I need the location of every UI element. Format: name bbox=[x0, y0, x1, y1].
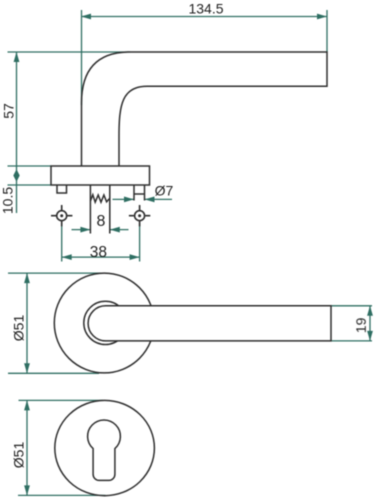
svg-text:57: 57 bbox=[1, 103, 17, 119]
svg-text:8: 8 bbox=[97, 213, 106, 230]
svg-text:38: 38 bbox=[90, 244, 107, 261]
svg-text:19: 19 bbox=[353, 317, 369, 333]
svg-text:10.5: 10.5 bbox=[0, 187, 15, 214]
svg-text:Ø51: Ø51 bbox=[10, 442, 26, 469]
svg-text:Ø51: Ø51 bbox=[11, 315, 27, 342]
svg-text:Ø7: Ø7 bbox=[155, 183, 174, 199]
svg-text:134.5: 134.5 bbox=[188, 1, 223, 17]
